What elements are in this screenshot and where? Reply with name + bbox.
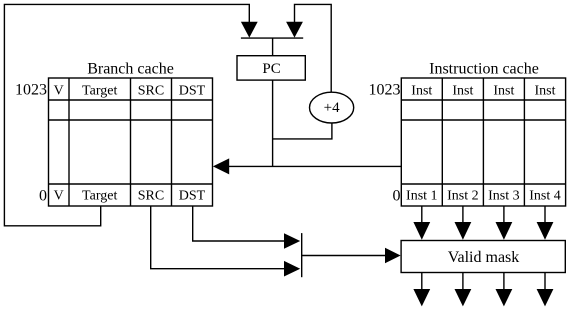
svg-text:Inst 2: Inst 2 bbox=[447, 189, 479, 204]
arrowhead: Inst 3 into valid mask (down) bbox=[496, 222, 513, 240]
branch cache column divider Target|SRC bbox=[130, 78, 132, 206]
svg-text:Inst 1: Inst 1 bbox=[406, 189, 438, 204]
+4 adder ellipse bbox=[310, 92, 354, 123]
arrowhead: valid mask output 4 (down) bbox=[537, 289, 554, 306]
wire: valid mask output stem 3 bbox=[503, 273, 505, 291]
branch cache row divider 1 bbox=[49, 99, 213, 101]
instruction cache column divider 3 bbox=[523, 78, 525, 206]
branch cache row divider 2 bbox=[49, 119, 213, 121]
instruction cache table outline bbox=[401, 78, 565, 206]
wire: feedback loop from Target bottom, left side, top to PC mux left input bbox=[4, 4, 249, 225]
svg-text:Target: Target bbox=[82, 189, 117, 204]
svg-text:Inst: Inst bbox=[535, 83, 556, 98]
wire: Inst 3 stem to valid mask bbox=[503, 206, 505, 223]
wire: Inst 4 stem to valid mask bbox=[544, 206, 546, 223]
svg-text:PC: PC bbox=[262, 61, 280, 77]
arrowhead: Inst 4 into valid mask (down) bbox=[537, 222, 554, 240]
instruction cache row divider 1 bbox=[401, 99, 565, 101]
svg-text:0: 0 bbox=[393, 188, 401, 205]
svg-text:1023: 1023 bbox=[15, 82, 47, 99]
instruction cache column divider 2 bbox=[482, 78, 484, 206]
svg-text:Inst 4: Inst 4 bbox=[529, 189, 561, 204]
svg-text:1023: 1023 bbox=[369, 82, 401, 99]
PC register box bbox=[237, 56, 305, 80]
svg-text:DST: DST bbox=[179, 83, 206, 98]
wire: Inst 1 stem to valid mask bbox=[421, 206, 423, 223]
svg-text:Inst: Inst bbox=[452, 83, 473, 98]
branch cache header cells bbox=[54, 83, 206, 98]
instruction cache table grid bbox=[401, 78, 565, 206]
wire: valid mask output stem 2 bbox=[462, 273, 464, 291]
wire: compare bar to valid mask input bbox=[302, 255, 386, 257]
arrowhead: DST into compare bar (right) bbox=[284, 233, 300, 249]
arrowhead: left mux input (down) bbox=[241, 22, 258, 38]
svg-text:Instruction cache: Instruction cache bbox=[429, 61, 539, 78]
branch cache column divider V|Target bbox=[68, 78, 70, 206]
svg-text:Target: Target bbox=[82, 83, 117, 98]
wire: compare junction bar bbox=[301, 233, 303, 277]
svg-text:V: V bbox=[54, 83, 64, 98]
wire: mux select bar above PC bbox=[241, 37, 303, 39]
arrowhead: valid mask output 2 (down) bbox=[455, 289, 472, 306]
instruction cache header cells bbox=[411, 83, 555, 98]
branch cache column divider SRC|DST bbox=[171, 78, 173, 206]
arrowhead: right mux input (down) bbox=[286, 22, 303, 38]
svg-text:V: V bbox=[54, 189, 64, 204]
wire: +4 output down then left to PC output line bbox=[273, 123, 332, 139]
wire: main horizontal bus from branch cache to instruction cache bbox=[228, 165, 401, 167]
svg-text:SRC: SRC bbox=[138, 189, 164, 204]
svg-text:Inst 3: Inst 3 bbox=[488, 189, 520, 204]
svg-text:SRC: SRC bbox=[138, 83, 164, 98]
arrowhead: Inst 2 into valid mask (down) bbox=[455, 222, 472, 240]
svg-text:DST: DST bbox=[179, 189, 206, 204]
instruction cache column divider 1 bbox=[441, 78, 443, 206]
wire: DST column down and right to compare bar bbox=[193, 206, 285, 241]
arrowhead: valid mask output 1 (down) bbox=[413, 289, 430, 306]
svg-text:+4: +4 bbox=[324, 100, 340, 116]
arrowhead: SRC into compare bar (right) bbox=[284, 261, 300, 277]
arrowhead: Inst 1 into valid mask (down) bbox=[413, 222, 430, 240]
valid mask box bbox=[401, 241, 565, 273]
wire: valid mask output stem 4 bbox=[544, 273, 546, 291]
svg-text:Valid mask: Valid mask bbox=[448, 249, 520, 266]
svg-text:Inst: Inst bbox=[493, 83, 514, 98]
branch cache bottom row cells bbox=[54, 189, 206, 204]
instruction cache row divider 3 bbox=[401, 183, 565, 185]
branch cache table grid bbox=[49, 78, 213, 206]
wire: SRC column down and right to compare bar bbox=[151, 206, 285, 269]
svg-text:0: 0 bbox=[39, 188, 47, 205]
instruction cache row divider 2 bbox=[401, 119, 565, 121]
arrowhead: into valid mask left (right) bbox=[385, 248, 401, 264]
arrowhead: valid mask output 3 (down) bbox=[496, 289, 513, 306]
svg-text:Inst: Inst bbox=[411, 83, 432, 98]
instruction cache bottom row cells bbox=[406, 189, 561, 204]
wire: PC output down to main horizontal bus bbox=[272, 80, 274, 166]
branch cache table outline bbox=[49, 78, 213, 206]
wire: mux bar to PC top bbox=[272, 38, 274, 56]
wire: Inst 2 stem to valid mask bbox=[462, 206, 464, 223]
wire: valid mask output stem 1 bbox=[421, 273, 423, 291]
branch cache row divider 3 bbox=[49, 183, 213, 185]
svg-text:Branch cache: Branch cache bbox=[87, 61, 174, 78]
arrowhead: main bus into branch cache (left) bbox=[213, 158, 229, 174]
wire: +4 loop top, from right mux arrow up and over to +4 adder top bbox=[295, 4, 332, 92]
